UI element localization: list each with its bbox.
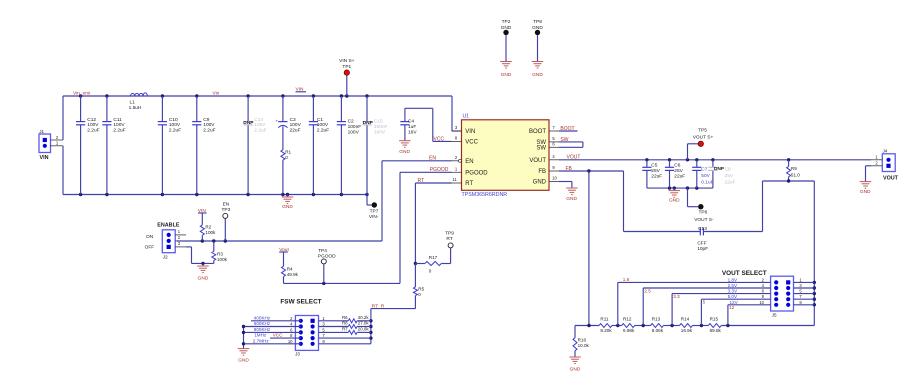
wire 2.5V tap bbox=[643, 288, 770, 326]
connector J1 VIN input bbox=[39, 129, 63, 161]
wire FB select bus bbox=[813, 181, 816, 326]
capacitor C8 (DNP) bbox=[708, 160, 735, 188]
svg-text:RT: RT bbox=[418, 178, 425, 184]
capacitor C2 bbox=[337, 96, 361, 195]
wire J1 pin1 to ground rail bbox=[62, 146, 64, 195]
svg-text:1MHz: 1MHz bbox=[254, 333, 267, 338]
connector J3 FSW select header bbox=[288, 316, 326, 357]
wire J4 pin2 to ground bbox=[866, 166, 872, 182]
svg-text:R4: R4 bbox=[287, 266, 293, 271]
svg-text:GND: GND bbox=[198, 276, 209, 282]
svg-text:2.2uF: 2.2uF bbox=[254, 128, 266, 134]
svg-text:10: 10 bbox=[759, 300, 764, 305]
svg-text:5: 5 bbox=[703, 300, 706, 305]
svg-text:C5: C5 bbox=[651, 162, 657, 168]
wire 12V tap bbox=[728, 305, 771, 326]
svg-text:RT: RT bbox=[446, 236, 452, 242]
svg-text:GND: GND bbox=[566, 196, 577, 202]
wire J5 right stubs to bus bbox=[794, 282, 815, 304]
svg-text:1.8: 1.8 bbox=[623, 277, 630, 282]
ground (output caps) bbox=[669, 188, 681, 203]
svg-text:3.3V: 3.3V bbox=[728, 289, 738, 294]
capacitor C3 (polarized) bbox=[276, 96, 302, 150]
svg-text:EN: EN bbox=[223, 201, 230, 207]
svg-text:100V: 100V bbox=[254, 122, 266, 128]
svg-text:R11: R11 bbox=[600, 317, 609, 322]
ground (TP2) bbox=[500, 62, 512, 79]
svg-text:GND: GND bbox=[860, 189, 871, 195]
node Vin bbox=[213, 91, 220, 97]
svg-text:100V: 100V bbox=[203, 122, 215, 128]
svg-text:PGOOD: PGOOD bbox=[318, 254, 336, 260]
svg-text:2.2uF: 2.2uF bbox=[169, 128, 181, 134]
svg-text:C2: C2 bbox=[348, 119, 354, 125]
svg-text:2.2uF: 2.2uF bbox=[113, 128, 125, 134]
svg-text:400KHz: 400KHz bbox=[254, 315, 271, 320]
VOUT SELECT title bbox=[722, 270, 767, 277]
svg-text:1uF: 1uF bbox=[408, 124, 416, 130]
svg-text:C14: C14 bbox=[254, 117, 263, 123]
svg-text:J3: J3 bbox=[295, 351, 300, 356]
svg-text:100V: 100V bbox=[87, 122, 99, 128]
svg-text:50V: 50V bbox=[701, 173, 710, 179]
svg-text:VOUT: VOUT bbox=[567, 155, 581, 161]
capacitor C11 bbox=[102, 96, 125, 195]
svg-text:Vin: Vin bbox=[213, 91, 220, 97]
wire feedback divider chain bbox=[575, 324, 814, 327]
wire J3 right side bbox=[319, 321, 371, 344]
test point TP5 VOUT S+ bbox=[688, 127, 714, 159]
wire Vin_emi/Vin top rail bbox=[63, 94, 462, 131]
svg-text:TP6: TP6 bbox=[698, 210, 707, 216]
svg-text:100V: 100V bbox=[374, 129, 386, 135]
svg-text:100V: 100V bbox=[348, 129, 360, 135]
test point TP9 RT bbox=[445, 231, 454, 264]
svg-text:DNP: DNP bbox=[363, 120, 374, 126]
resistor R13 bbox=[651, 317, 664, 333]
svg-text:R9: R9 bbox=[791, 166, 797, 171]
capacitor C9 bbox=[192, 96, 215, 195]
svg-text:49.9k: 49.9k bbox=[287, 272, 299, 277]
connector J5 VOUT select header bbox=[759, 276, 802, 317]
svg-text:VOUT S-: VOUT S- bbox=[694, 217, 714, 223]
svg-text:DNP: DNP bbox=[243, 120, 254, 126]
svg-text:8.06k: 8.06k bbox=[652, 328, 664, 333]
test point TP2 GND bbox=[501, 19, 512, 62]
svg-text:J5: J5 bbox=[772, 312, 777, 317]
wire input ground rail bbox=[63, 193, 369, 196]
svg-text:GND: GND bbox=[501, 72, 512, 78]
svg-text:VOUT: VOUT bbox=[529, 158, 546, 164]
resistor R12 bbox=[622, 317, 635, 333]
svg-text:0: 0 bbox=[429, 268, 432, 273]
svg-text:SW: SW bbox=[536, 145, 546, 151]
resistor R11 bbox=[599, 317, 612, 333]
svg-text:U1: U1 bbox=[463, 114, 470, 120]
svg-text:R8: R8 bbox=[342, 321, 348, 326]
svg-text:25V: 25V bbox=[725, 173, 734, 179]
svg-text:SW: SW bbox=[560, 137, 568, 143]
svg-text:EN: EN bbox=[465, 159, 473, 165]
svg-text:R2: R2 bbox=[205, 225, 211, 230]
svg-text:GND: GND bbox=[399, 149, 410, 155]
svg-text:22uF: 22uF bbox=[674, 174, 685, 180]
svg-text:TP1: TP1 bbox=[342, 64, 351, 70]
svg-text:16.9k: 16.9k bbox=[681, 328, 693, 333]
svg-text:C8: C8 bbox=[725, 166, 731, 172]
wire J2 pin3 to ground rail bbox=[186, 247, 214, 265]
wire 1.8V tap bbox=[618, 282, 771, 325]
svg-text:100V: 100V bbox=[113, 122, 125, 128]
resistor R17 bbox=[415, 255, 450, 273]
wire SW net loop pins 5-6 bbox=[559, 137, 583, 148]
svg-text:VOUT: VOUT bbox=[883, 175, 899, 181]
resistor R2 bbox=[200, 213, 216, 241]
svg-text:C13: C13 bbox=[698, 226, 707, 232]
svg-text:R6: R6 bbox=[342, 315, 348, 320]
svg-text:16V: 16V bbox=[408, 129, 417, 135]
svg-text:FB: FB bbox=[566, 166, 573, 172]
ground (TP8) bbox=[532, 62, 544, 79]
resistor R6 bbox=[342, 315, 369, 323]
svg-text:0: 0 bbox=[418, 292, 421, 297]
node VIN bbox=[296, 87, 307, 93]
svg-text:R17: R17 bbox=[429, 255, 438, 260]
svg-text:FSW SELECT: FSW SELECT bbox=[280, 298, 321, 305]
capacitor C4 bbox=[400, 108, 433, 141]
svg-text:R12: R12 bbox=[623, 317, 632, 322]
svg-text:VOUT S+: VOUT S+ bbox=[693, 135, 714, 141]
svg-text:12V: 12V bbox=[730, 300, 739, 305]
connector J4 VOUT bbox=[871, 149, 899, 182]
svg-text:100V: 100V bbox=[169, 122, 181, 128]
svg-text:VIN S+: VIN S+ bbox=[339, 58, 355, 64]
svg-text:R1: R1 bbox=[285, 150, 291, 155]
ground (J4) bbox=[860, 182, 872, 195]
svg-text:TP5: TP5 bbox=[698, 127, 707, 133]
svg-text:GND: GND bbox=[570, 367, 581, 373]
svg-text:25V: 25V bbox=[674, 168, 683, 174]
svg-text:J2: J2 bbox=[163, 254, 168, 259]
resistor R9 bbox=[787, 160, 801, 181]
svg-text:J1: J1 bbox=[39, 129, 44, 134]
svg-text:TPSM365R6RDNR: TPSM365R6RDNR bbox=[462, 192, 508, 198]
node VIN (R2 top) bbox=[198, 208, 207, 214]
svg-text:R15: R15 bbox=[710, 317, 719, 322]
svg-text:10: 10 bbox=[288, 339, 293, 344]
capacitor C1 bbox=[309, 96, 329, 195]
svg-text:TP3: TP3 bbox=[221, 207, 230, 213]
svg-text:C4: C4 bbox=[408, 119, 414, 125]
svg-text:69.8k: 69.8k bbox=[710, 328, 722, 333]
svg-text:1.8V: 1.8V bbox=[728, 277, 738, 282]
test point TP4 PGOOD bbox=[318, 248, 336, 283]
svg-text:10pF: 10pF bbox=[697, 246, 708, 252]
svg-text:2.5: 2.5 bbox=[644, 288, 651, 293]
connector J2 ENABLE bbox=[145, 223, 186, 260]
svg-text:Vin_emi: Vin_emi bbox=[73, 91, 90, 97]
svg-text:BOOT: BOOT bbox=[529, 129, 546, 135]
svg-text:R14: R14 bbox=[681, 317, 690, 322]
svg-text:VIN: VIN bbox=[465, 129, 475, 135]
capacitor C14 (DNP) bbox=[243, 96, 266, 195]
svg-text:VCC: VCC bbox=[434, 136, 445, 142]
svg-text:10: 10 bbox=[552, 176, 557, 181]
svg-text:GND: GND bbox=[669, 198, 680, 204]
ground (U1 pin 10) bbox=[559, 182, 578, 202]
wire J1 pin2 to Vin_emi rail bbox=[62, 96, 64, 140]
wire FSW left side / frequency nets bbox=[242, 321, 301, 349]
ground (C4) bbox=[399, 141, 411, 155]
wire EN net bbox=[177, 156, 452, 243]
svg-text:6.98k: 6.98k bbox=[623, 328, 635, 333]
test point TP6 VOUT S- bbox=[688, 188, 714, 223]
svg-text:8.20k: 8.20k bbox=[600, 328, 612, 333]
op-amp U1 TPSM365R6RDNR power module bbox=[452, 114, 560, 199]
svg-text:C11: C11 bbox=[113, 117, 122, 123]
resistor R7 bbox=[342, 327, 369, 335]
capacitor C7 bbox=[692, 160, 713, 188]
svg-text:100V: 100V bbox=[317, 122, 329, 128]
svg-text:2.2uF: 2.2uF bbox=[203, 128, 215, 134]
svg-text:C3: C3 bbox=[290, 117, 296, 123]
node Vin_emi bbox=[73, 91, 90, 97]
svg-text:L1: L1 bbox=[130, 100, 136, 106]
svg-text:0: 0 bbox=[285, 155, 288, 160]
capacitor C5 bbox=[642, 160, 662, 188]
wire R9 bottom node bbox=[763, 179, 815, 231]
svg-text:CFF: CFF bbox=[697, 240, 706, 246]
svg-text:100k: 100k bbox=[217, 257, 228, 262]
svg-text:40.2k: 40.2k bbox=[358, 315, 370, 320]
svg-text:C10: C10 bbox=[169, 117, 178, 123]
node Vout (R4 top) bbox=[279, 247, 289, 253]
svg-text:3.3: 3.3 bbox=[673, 294, 680, 299]
svg-text:22uF: 22uF bbox=[651, 174, 662, 180]
capacitor C12 bbox=[76, 96, 100, 195]
svg-text:TP8: TP8 bbox=[533, 19, 542, 25]
wire RT net bbox=[414, 178, 452, 287]
svg-text:22uF: 22uF bbox=[290, 128, 301, 134]
svg-text:ON: ON bbox=[146, 234, 154, 240]
svg-text:+: + bbox=[276, 118, 279, 123]
svg-text:R5: R5 bbox=[418, 287, 424, 292]
wire RT_R net bbox=[369, 303, 415, 343]
svg-text:2.2uF: 2.2uF bbox=[87, 128, 99, 134]
svg-text:5.0V: 5.0V bbox=[728, 294, 738, 299]
ground (FSW select) bbox=[238, 349, 250, 364]
svg-text:22uF: 22uF bbox=[725, 180, 736, 186]
test point TP3 EN bbox=[221, 201, 230, 241]
svg-text:VIN: VIN bbox=[40, 155, 49, 161]
svg-text:TP9: TP9 bbox=[445, 231, 454, 237]
svg-text:C12: C12 bbox=[87, 117, 96, 123]
wire BOOT net stub bbox=[559, 126, 578, 132]
svg-text:RT_R: RT_R bbox=[372, 303, 385, 309]
svg-text:51.0: 51.0 bbox=[791, 172, 800, 177]
resistor R14 bbox=[680, 317, 693, 333]
svg-text:J4: J4 bbox=[883, 149, 888, 154]
svg-text:10.0k: 10.0k bbox=[578, 343, 590, 348]
svg-text:ENABLE: ENABLE bbox=[157, 223, 180, 229]
svg-text:VOUT SELECT: VOUT SELECT bbox=[722, 270, 767, 277]
resistor R5 bbox=[413, 287, 424, 309]
svg-text:VIN-: VIN- bbox=[369, 214, 379, 220]
ground (enable divider) bbox=[197, 263, 209, 281]
inductor L1 bbox=[129, 93, 148, 111]
svg-text:C7: C7 bbox=[701, 166, 707, 172]
svg-text:100nF: 100nF bbox=[348, 124, 362, 130]
svg-text:R7: R7 bbox=[342, 327, 348, 332]
svg-text:1.5uH: 1.5uH bbox=[129, 105, 142, 111]
svg-text:DNP: DNP bbox=[714, 166, 725, 172]
test point TP8 GND bbox=[532, 19, 543, 62]
svg-text:12: 12 bbox=[729, 305, 735, 310]
wire VOUT rail bbox=[559, 155, 871, 162]
svg-text:C15: C15 bbox=[374, 119, 383, 125]
wire VCC net bbox=[433, 136, 452, 142]
svg-text:100V: 100V bbox=[290, 122, 302, 128]
svg-text:GND: GND bbox=[238, 358, 249, 364]
wire FB net bbox=[559, 166, 624, 326]
svg-text:800KHz: 800KHz bbox=[254, 327, 271, 332]
resistor R3 bbox=[212, 241, 228, 263]
wire 3.3V tap bbox=[672, 294, 771, 326]
svg-text:C1: C1 bbox=[317, 117, 323, 123]
svg-text:EN: EN bbox=[429, 156, 436, 162]
svg-text:OFF: OFF bbox=[145, 244, 155, 250]
svg-text:GND: GND bbox=[282, 204, 293, 210]
resistor R16 bbox=[573, 326, 590, 358]
resistor R8 bbox=[342, 321, 369, 329]
svg-text:2.5V: 2.5V bbox=[728, 283, 738, 288]
svg-text:11: 11 bbox=[452, 177, 457, 182]
svg-text:R16: R16 bbox=[578, 337, 587, 342]
svg-text:0.1uF: 0.1uF bbox=[701, 180, 713, 186]
capacitor C10 bbox=[158, 96, 181, 195]
svg-text:2.2uF: 2.2uF bbox=[317, 128, 329, 134]
ground (input rail) bbox=[282, 195, 294, 211]
svg-text:27.0k: 27.0k bbox=[358, 321, 370, 326]
wire PGOOD net bbox=[284, 167, 452, 285]
svg-text:TP2: TP2 bbox=[502, 19, 511, 25]
svg-text:PGOOD: PGOOD bbox=[430, 167, 449, 173]
svg-text:VCC: VCC bbox=[465, 139, 478, 145]
svg-text:R13: R13 bbox=[652, 317, 661, 322]
svg-text:R3: R3 bbox=[217, 252, 223, 257]
svg-text:100nF: 100nF bbox=[374, 124, 388, 130]
capacitor C13 CFF bbox=[624, 226, 763, 252]
capacitor C15 (DNP) bbox=[362, 96, 387, 195]
svg-text:VCC: VCC bbox=[273, 333, 283, 338]
svg-text:FB: FB bbox=[538, 169, 546, 175]
svg-text:GND: GND bbox=[532, 72, 543, 78]
capacitor C6 bbox=[665, 160, 685, 188]
svg-text:C9: C9 bbox=[203, 117, 209, 123]
resistor R1 bbox=[281, 150, 292, 195]
svg-text:2.7MHz: 2.7MHz bbox=[253, 338, 270, 343]
test point TP7 VIN- bbox=[367, 195, 379, 220]
svg-text:TP4: TP4 bbox=[318, 248, 327, 254]
svg-text:RT: RT bbox=[465, 181, 473, 187]
resistor R4 bbox=[282, 252, 299, 283]
svg-text:BOOT: BOOT bbox=[560, 126, 574, 132]
svg-text:20.0k: 20.0k bbox=[358, 327, 370, 332]
resistor R15 bbox=[708, 317, 721, 333]
FSW SELECT title bbox=[280, 298, 321, 305]
svg-text:GND: GND bbox=[533, 180, 547, 186]
svg-text:TP7: TP7 bbox=[370, 208, 379, 214]
test point TP1 VIN S+ bbox=[339, 58, 355, 96]
svg-text:25V: 25V bbox=[651, 168, 660, 174]
svg-text:100k: 100k bbox=[205, 230, 216, 235]
ground (R16) bbox=[569, 357, 581, 373]
wire output cap ground rail bbox=[647, 186, 713, 189]
svg-text:600KHz: 600KHz bbox=[254, 321, 271, 326]
svg-text:C6: C6 bbox=[674, 162, 680, 168]
svg-text:PGOOD: PGOOD bbox=[465, 170, 488, 176]
wire 5.0V tap bbox=[701, 299, 770, 325]
